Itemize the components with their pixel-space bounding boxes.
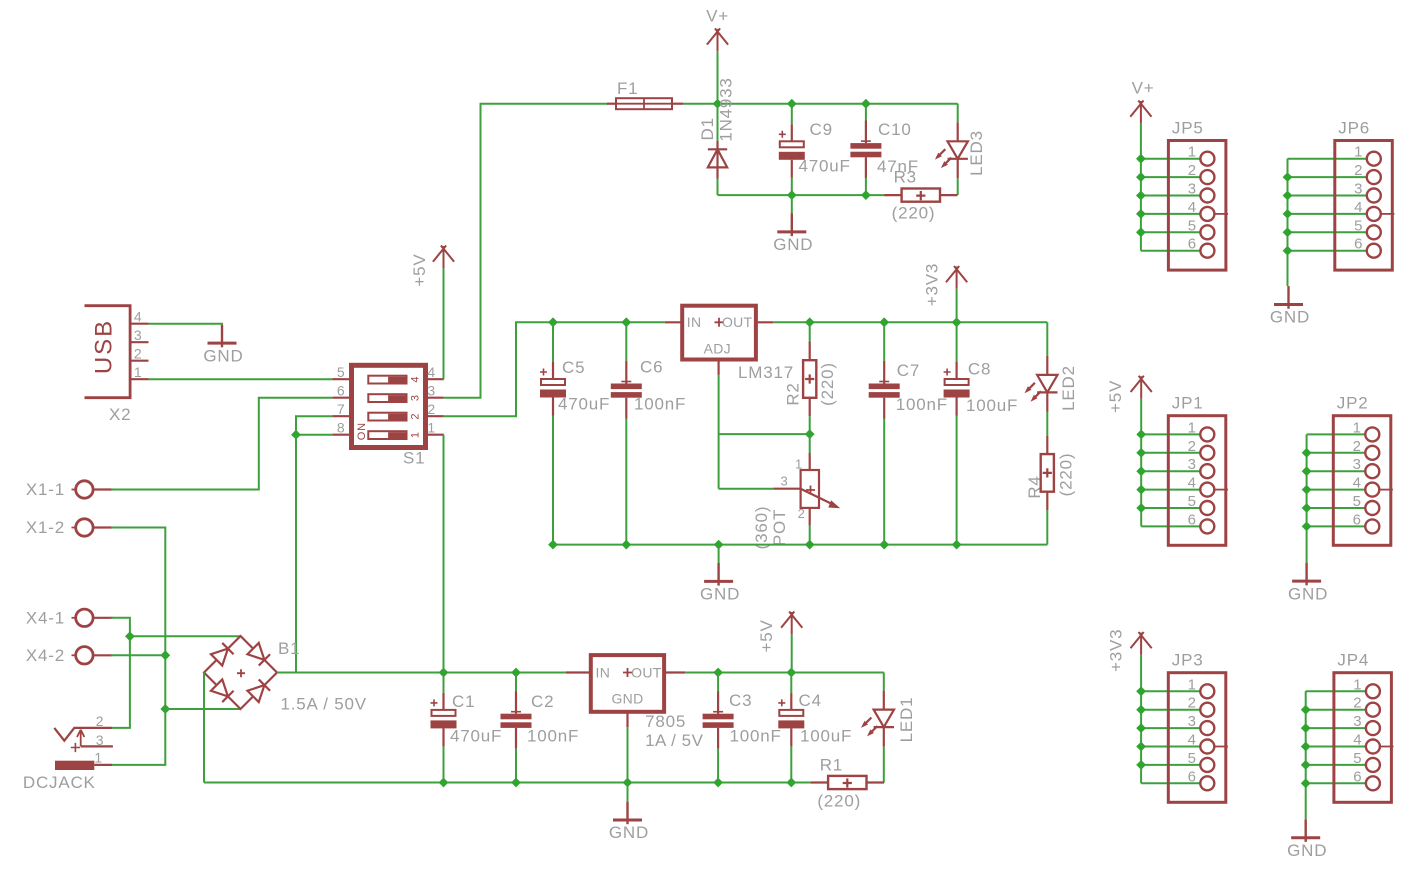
LED LED2 [1025, 356, 1058, 412]
ground symbol (7805) [626, 802, 628, 825]
wire POT pin3 wire [719, 488, 774, 490]
wire JP4 pin3 stub [1306, 727, 1367, 729]
svg-text:X1-1: X1-1 [26, 480, 65, 499]
wire JP5 pin1 stub [1141, 158, 1201, 160]
svg-text:4: 4 [1188, 475, 1197, 492]
svg-text:C9: C9 [810, 120, 833, 139]
svg-text:F1: F1 [617, 79, 638, 98]
svg-text:R1: R1 [820, 756, 843, 775]
junction X4-2 tap [160, 650, 170, 660]
wire JP3 pin2 stub [1141, 709, 1201, 711]
svg-text:5: 5 [1353, 750, 1362, 767]
svg-text:1: 1 [1188, 676, 1197, 693]
svg-text:C6: C6 [640, 358, 663, 377]
wire JP2 pin3 stub [1307, 470, 1366, 472]
power symbol V+ (top) [707, 28, 728, 51]
junction mid GND rail / C8 [952, 540, 962, 550]
wire C9 top lead [791, 104, 793, 125]
junction mid GND rail / C5 [548, 540, 558, 550]
wire JP2 bus [1306, 434, 1308, 562]
wire JP6 bus [1287, 159, 1289, 286]
svg-text:5: 5 [1353, 493, 1362, 510]
wire JP4 pin4 stub [1306, 746, 1367, 748]
wire C10 bottom lead [865, 178, 867, 195]
wire C3 top lead [717, 673, 719, 692]
DCJACK pin numbers [94, 713, 104, 766]
wire R2 top lead [809, 322, 811, 343]
svg-text:3: 3 [1354, 181, 1363, 198]
pad X4-2 [72, 647, 113, 664]
svg-text:C3: C3 [729, 691, 752, 710]
svg-text:JP4: JP4 [1337, 651, 1369, 670]
junction out rail / C7 [879, 317, 889, 327]
svg-text:V+: V+ [706, 7, 729, 26]
wire JP1 pin4 stub [1141, 489, 1201, 491]
connector JP2 [1333, 394, 1393, 546]
svg-text:C5: C5 [562, 358, 585, 377]
power symbol +3V3 (JP3) [1131, 632, 1152, 655]
svg-text:2: 2 [1188, 162, 1197, 179]
svg-text:4: 4 [1188, 732, 1197, 749]
JP2 pin numbers [1353, 419, 1362, 528]
junction mid GND rail / POT [805, 540, 815, 550]
svg-text:3: 3 [409, 394, 421, 401]
svg-text:(220): (220) [818, 362, 837, 406]
junction X4-1 / AC1 [125, 631, 135, 641]
junction JP5 bus row 2 [1136, 172, 1146, 182]
wire JP1 pin3 stub [1141, 470, 1201, 472]
LED LED3 [935, 122, 968, 178]
X2 pin numbers [134, 309, 143, 381]
junction mid GND rail / GND [714, 540, 724, 550]
svg-text:JP5: JP5 [1172, 119, 1204, 138]
svg-text:470uF: 470uF [799, 157, 851, 176]
svg-text:+3V3: +3V3 [1106, 629, 1125, 672]
svg-text:1: 1 [1353, 419, 1362, 436]
power symbol +3V3 (output) [946, 266, 967, 289]
connector JP6 [1335, 119, 1395, 271]
svg-text:X4-1: X4-1 [26, 608, 65, 627]
junction GND rail / C3 [713, 778, 723, 788]
svg-text:C4: C4 [799, 691, 822, 710]
connector JP1 [1168, 394, 1228, 546]
junction JP1 bus row 1 [1136, 430, 1146, 440]
pad X1-2 [72, 519, 113, 536]
svg-text:GND: GND [609, 823, 649, 842]
svg-text:1: 1 [1188, 419, 1197, 436]
wire S1 pin1 down [443, 435, 445, 673]
wire JP3 bus [1140, 655, 1142, 783]
svg-text:4: 4 [1354, 199, 1363, 216]
connector JP3 [1168, 651, 1228, 803]
wire C2 bottom lead [515, 749, 517, 783]
svg-text:1: 1 [134, 364, 143, 380]
junction JP2 bus row 5 [1302, 503, 1312, 513]
junction JP3 bus row 1 [1136, 686, 1146, 696]
junction GND rail / C1 [439, 778, 449, 788]
wire C9 bottom lead [791, 178, 793, 195]
svg-text:6: 6 [1188, 236, 1197, 253]
wire JP1 bus [1140, 399, 1142, 527]
wire LED2 top lead [1046, 322, 1048, 356]
svg-text:X1-2: X1-2 [26, 518, 65, 537]
svg-text:USB: USB [90, 319, 117, 374]
JP5 pin numbers [1188, 144, 1197, 253]
junction JP3 bus row 5 [1136, 760, 1146, 770]
svg-text:JP2: JP2 [1337, 394, 1369, 413]
wire 7805 GND to rail [627, 727, 629, 782]
svg-text:1: 1 [427, 420, 436, 436]
svg-text:D1: D1 [698, 117, 717, 140]
svg-text:8: 8 [337, 420, 346, 436]
resistor R2 [803, 342, 816, 416]
svg-text:(360): (360) [752, 506, 771, 550]
wire JP2 pin1 stub [1307, 433, 1366, 435]
junction JP4 bus row 2 [1301, 705, 1311, 715]
svg-text:2: 2 [96, 713, 105, 729]
wire C5 bottom lead [552, 416, 554, 545]
wire JP4 pin6 stub [1306, 782, 1367, 784]
wire X1-2 down [111, 528, 165, 710]
junction JP2 bus row 6 [1302, 522, 1312, 532]
wire V+ symbol to top rail [717, 51, 719, 103]
wire JP1 pin2 stub [1141, 452, 1201, 454]
pad X4-1 [72, 609, 113, 626]
svg-text:1.5A / 50V: 1.5A / 50V [281, 695, 367, 714]
dip switch S1 [332, 365, 443, 447]
svg-text:ON: ON [356, 422, 368, 440]
ground symbol (JP4) [1304, 819, 1306, 842]
svg-text:GND: GND [1288, 584, 1328, 603]
svg-text:R2: R2 [783, 382, 802, 405]
svg-text:6: 6 [1188, 511, 1197, 528]
wire JP2 pin5 stub [1307, 507, 1366, 509]
junction JP2 bus row 2 [1302, 448, 1312, 458]
junction JP4 bus row 5 [1301, 760, 1311, 770]
wire C2 top lead [515, 673, 517, 692]
svg-text:2: 2 [1353, 695, 1362, 712]
svg-text:(220): (220) [1057, 453, 1076, 497]
connector JP5 [1168, 119, 1228, 271]
wire JP5 pin2 stub [1141, 176, 1201, 178]
svg-text:470uF: 470uF [450, 727, 502, 746]
svg-text:ADJ: ADJ [704, 341, 731, 357]
svg-text:LED3: LED3 [967, 130, 986, 176]
wire JP3 pin1 stub [1141, 690, 1201, 692]
svg-text:(220): (220) [892, 203, 936, 222]
junction AC2 corner / DCJACK pin1 [160, 704, 170, 714]
wire LED1 top lead [883, 673, 885, 691]
LED LED1 [861, 691, 894, 747]
junction JP5 bus row 5 [1136, 227, 1146, 237]
svg-text:3: 3 [427, 383, 436, 399]
wire X4-1 down [111, 618, 130, 728]
potentiometer R5 (POT) [773, 453, 840, 526]
svg-text:4: 4 [427, 364, 436, 380]
svg-text:R3: R3 [894, 168, 917, 187]
svg-text:GND: GND [773, 235, 813, 254]
svg-text:2: 2 [1354, 162, 1363, 179]
svg-text:5: 5 [1188, 493, 1197, 510]
junction JP5 bus row 4 [1136, 209, 1146, 219]
wire S1 pin8 stub [296, 434, 332, 436]
wire R2 bottom lead [809, 416, 811, 434]
ground symbol (JP6) [1287, 286, 1289, 309]
svg-text:1N4933: 1N4933 [717, 77, 736, 141]
junction mid GND rail / C6 [621, 540, 631, 550]
junction V+ rail / D1 [713, 99, 723, 109]
wire B1+ rail to 7805 IN [277, 672, 566, 674]
svg-text:4: 4 [1353, 475, 1362, 492]
svg-text:LED2: LED2 [1059, 365, 1078, 411]
junction JP6 bus row 5 [1283, 227, 1293, 237]
svg-text:5: 5 [1354, 217, 1363, 234]
ground symbol (USB) [221, 325, 223, 348]
svg-text:C2: C2 [531, 692, 554, 711]
svg-text:2: 2 [1188, 695, 1197, 712]
junction out rail / C8 / +3V3 [952, 317, 962, 327]
svg-text:3: 3 [1188, 181, 1197, 198]
JP3 pin numbers [1188, 676, 1197, 785]
junction JP6 bus row 4 [1283, 209, 1293, 219]
wire B1 minus to GND rail [203, 673, 205, 783]
power symbol V+ (JP5) [1130, 101, 1151, 124]
svg-text:6: 6 [1353, 511, 1362, 528]
svg-text:2: 2 [134, 346, 143, 362]
svg-text:LM317: LM317 [738, 363, 794, 382]
JP4 pin numbers [1353, 676, 1362, 785]
svg-text:4: 4 [134, 309, 143, 325]
junction JP2 bus row 3 [1302, 466, 1312, 476]
junction JP1 bus row 4 [1136, 485, 1146, 495]
wire JP3 pin4 stub [1141, 746, 1201, 748]
svg-text:JP6: JP6 [1338, 119, 1370, 138]
wire LED3 top lead [957, 104, 959, 123]
svg-text:X2: X2 [109, 405, 131, 424]
junction top GND rail / C10 [861, 190, 871, 200]
junction R2 / ADJ / POT [805, 429, 815, 439]
connector DCJACK [54, 728, 113, 770]
junction JP5 bus row 3 [1136, 191, 1146, 201]
svg-text:LED1: LED1 [897, 697, 916, 743]
junction JP4 bus row 3 [1301, 723, 1311, 733]
wire S1 pin2 to LM317 IN [444, 322, 665, 416]
svg-text:6: 6 [337, 383, 346, 399]
wire AC1 to bridge [130, 635, 241, 637]
svg-text:7805: 7805 [645, 712, 686, 731]
svg-text:100uF: 100uF [800, 727, 852, 746]
junction mid GND rail / C7 [879, 540, 889, 550]
wire mid GND rail [553, 544, 1047, 546]
junction GND rail / 7805 [623, 778, 633, 788]
svg-text:S1: S1 [403, 449, 425, 468]
svg-text:+5V: +5V [757, 619, 776, 652]
junction mid rail / C6 [621, 317, 631, 327]
power symbol +5V (S1) [433, 246, 454, 269]
svg-text:3: 3 [1188, 713, 1197, 730]
wire JP3 pin5 stub [1141, 764, 1201, 766]
wire LED3 bottom lead [957, 178, 959, 195]
wire X1-1 to S1 pin6 [111, 398, 332, 490]
ground symbol (top section) [791, 214, 793, 237]
junction JP4 bus row 6 [1301, 778, 1311, 788]
power symbol +5V (output) [781, 612, 802, 635]
wire D1 top lead [717, 104, 719, 141]
wire JP2 pin6 stub [1307, 525, 1366, 527]
wire S1 pin7 jog [296, 416, 332, 435]
wire C1 top lead [443, 673, 445, 693]
wire JP5 pin4 stub [1141, 213, 1201, 215]
svg-text:100nF: 100nF [634, 395, 686, 414]
wire USB pin1 to S1 pin5 [149, 378, 333, 380]
wire JP1 pin1 stub [1141, 433, 1201, 435]
resistor R4 [1041, 436, 1054, 510]
svg-text:2: 2 [798, 506, 806, 521]
svg-text:100nF: 100nF [896, 395, 948, 414]
svg-text:6: 6 [1353, 768, 1362, 785]
wire C6 top lead [625, 322, 627, 361]
wire JP2 pin4 stub [1307, 489, 1366, 491]
JP6 pin numbers [1354, 144, 1363, 253]
svg-text:JP3: JP3 [1172, 651, 1204, 670]
svg-text:6: 6 [1354, 236, 1363, 253]
JP1 pin numbers [1188, 419, 1197, 528]
S1 pin numbers [337, 364, 436, 436]
junction V+ rail / C9 [787, 99, 797, 109]
wire JP6 pin1 stub [1288, 158, 1367, 160]
wire JP5 bus [1140, 123, 1142, 250]
wire JP5 pin3 stub [1141, 195, 1201, 197]
wire S1 pin3 to V+ rail [444, 104, 608, 398]
wire C4 bottom lead [790, 746, 792, 782]
capacitor C7 [869, 361, 900, 419]
svg-text:5: 5 [1188, 217, 1197, 234]
svg-text:2: 2 [1188, 438, 1197, 455]
wire LM317 OUT rail [773, 321, 1047, 323]
junction JP6 bus row 6 [1283, 246, 1293, 256]
svg-text:GND: GND [611, 691, 643, 707]
junction JP6 bus row 3 [1283, 191, 1293, 201]
wire ADJ wire [718, 375, 720, 489]
ground symbol (LM317 section) [717, 563, 719, 586]
regulator U1 LM317 [665, 306, 773, 375]
capacitor C8 [944, 362, 970, 416]
junction JP3 bus row 3 [1136, 723, 1146, 733]
capacitor C9 [779, 124, 805, 178]
wire top GND rail [718, 194, 885, 196]
wire POT pin2 down [809, 526, 811, 545]
wire C8 top lead [956, 322, 958, 362]
wire +3V3 symbol down [956, 289, 958, 322]
svg-text:C1: C1 [452, 692, 475, 711]
junction JP3 bus row 4 [1136, 742, 1146, 752]
svg-text:+5V: +5V [410, 253, 429, 286]
wire top GND stub [791, 195, 793, 213]
svg-text:X4-2: X4-2 [26, 646, 65, 665]
svg-text:3: 3 [134, 327, 143, 343]
wire C1 bottom lead [443, 746, 445, 782]
wire DCJACK pin1 to AC2 [112, 709, 165, 765]
capacitor C4 [778, 693, 804, 747]
junction JP3 bus row 2 [1136, 705, 1146, 715]
svg-text:3: 3 [96, 732, 105, 748]
svg-text:6: 6 [1188, 768, 1197, 785]
svg-text:+3V3: +3V3 [922, 263, 941, 306]
wire +5V symbol down [791, 634, 793, 672]
svg-text:1: 1 [1353, 676, 1362, 693]
bridge rectifier B1 [204, 636, 277, 709]
junction JP4 bus row 4 [1301, 742, 1311, 752]
junction rail / C2 [511, 668, 521, 678]
resistor R3 [884, 189, 957, 202]
wire C7 bottom lead [883, 419, 885, 545]
wire 7805 GND stub [627, 783, 629, 802]
wire C8 bottom lead [956, 416, 958, 545]
wire JP1 pin5 stub [1141, 507, 1201, 509]
junction JP1 bus row 2 [1136, 448, 1146, 458]
svg-text:100uF: 100uF [966, 396, 1018, 415]
svg-text:2: 2 [427, 401, 436, 417]
wire R4 bottom lead [1046, 510, 1048, 544]
svg-text:GND: GND [700, 585, 740, 604]
capacitor C6 [611, 361, 642, 419]
svg-text:OUT: OUT [631, 665, 662, 681]
svg-text:C10: C10 [878, 120, 912, 139]
svg-text:4: 4 [1353, 732, 1362, 749]
junction rail / S1 pin1 / C1 [439, 668, 449, 678]
wire C6 bottom lead [625, 419, 627, 545]
capacitor C5 [540, 362, 566, 416]
junction JP1 bus row 3 [1136, 466, 1146, 476]
wire JP3 pin3 stub [1141, 727, 1201, 729]
svg-text:3: 3 [780, 473, 788, 488]
wire LED1 bottom lead [883, 747, 885, 783]
wire R2 junction to POT pin1 [809, 434, 811, 453]
wire JP6 pin4 stub [1288, 213, 1367, 215]
junction JP6 bus row 2 [1283, 172, 1293, 182]
svg-text:4: 4 [409, 376, 421, 383]
svg-text:5: 5 [1188, 750, 1197, 767]
junction JP2 bus row 4 [1302, 485, 1312, 495]
svg-text:C7: C7 [897, 361, 920, 380]
svg-text:7: 7 [337, 401, 346, 417]
svg-text:V+: V+ [1132, 79, 1155, 98]
junction GND rail / C2 [511, 778, 521, 788]
svg-text:3: 3 [1188, 456, 1197, 473]
capacitor C1 [431, 693, 457, 747]
svg-text:GND: GND [203, 346, 243, 365]
wire JP4 bus [1305, 691, 1307, 819]
svg-text:C8: C8 [968, 360, 991, 379]
wire C5 top lead [552, 322, 554, 362]
wire V+ rail right of F1 [683, 103, 958, 105]
svg-text:100nF: 100nF [730, 727, 782, 746]
wire LED2 bottom lead [1046, 412, 1048, 436]
junction +5V rail / C3 [713, 668, 723, 678]
svg-text:1: 1 [94, 750, 103, 766]
wire JP6 pin2 stub [1288, 176, 1367, 178]
ground symbol (JP2) [1305, 563, 1307, 586]
pad X1-1 [72, 481, 113, 498]
svg-text:GND: GND [1270, 308, 1310, 327]
svg-text:DCJACK: DCJACK [23, 773, 96, 792]
wire JP1 pin6 stub [1141, 525, 1201, 527]
junction V+ rail / C10 [861, 99, 871, 109]
junction GND rail / C4 / R1 [786, 778, 796, 788]
svg-text:+5V: +5V [1106, 380, 1125, 413]
svg-text:1: 1 [1188, 144, 1197, 161]
diode D1 [708, 141, 727, 179]
